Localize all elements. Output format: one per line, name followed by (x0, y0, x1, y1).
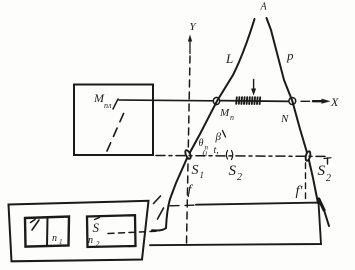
Y axis dashed line (187, 56, 191, 244)
label beta' (215, 131, 222, 143)
svg-text:1: 1 (59, 238, 63, 246)
node S2' blob on beam p (305, 151, 311, 161)
svg-text:2: 2 (237, 172, 242, 183)
beam L (left ray) (166, 19, 255, 228)
svg-text:M: M (219, 107, 230, 119)
label theta_p (199, 138, 209, 152)
hook at bottom of beam L (152, 228, 166, 231)
svg-text:S: S (93, 220, 100, 235)
small marks (1 under theta (203, 149, 208, 158)
node M_p (left circle on X axis) (213, 97, 219, 104)
box of detectors (bottom-left outer box) (9, 201, 149, 261)
svg-text:p: p (286, 48, 294, 63)
svg-text:п: п (230, 113, 234, 122)
label S2 (229, 163, 243, 183)
divider in P1 box (46, 217, 49, 246)
svg-text:Y: Y (190, 21, 198, 33)
wire: X axis between nodes (220, 100, 289, 103)
svg-text:β: β (215, 131, 222, 143)
label P2 (88, 235, 100, 248)
svg-text:(ι: (ι (203, 149, 208, 158)
slash in P1 box (32, 220, 39, 230)
svg-text:N: N (280, 113, 289, 125)
label M_pl (93, 91, 112, 110)
svg-text:пл: пл (104, 101, 112, 110)
dashed vertical f' (305, 163, 307, 203)
box M_pl (upper-left mirror block) (74, 85, 153, 156)
beam p (right ray) (267, 18, 319, 203)
svg-text:п: п (88, 235, 93, 246)
detector box P2 (87, 215, 136, 247)
dashed diagonal inside box M_pl (107, 108, 126, 151)
svg-text:п: п (52, 233, 57, 244)
bold tick at rectangle corner on beam p (319, 199, 324, 210)
svg-text:1: 1 (200, 170, 205, 180)
grating on X axis (236, 97, 260, 104)
wire: beam from box M_pl to node M_p (119, 99, 214, 102)
label S2 prime (318, 163, 332, 184)
svg-text:f: f (188, 183, 194, 198)
svg-text:θ: θ (199, 138, 204, 149)
dashed line from P2 box to beam L end (108, 231, 160, 234)
slash dash above beam L end (154, 196, 161, 204)
svg-text:A: A (260, 2, 268, 13)
node S1 blob on beam L (184, 149, 192, 159)
svg-text:t,: t, (214, 145, 219, 156)
X axis dash and arrow (301, 100, 310, 102)
arrow above grating (pointing down) (253, 80, 255, 90)
slash dash near beam L end (158, 208, 164, 219)
svg-text:S: S (318, 163, 326, 179)
svg-text:S: S (192, 163, 199, 178)
dashed focal line through S1 S2 (156, 155, 327, 158)
gap marks near S2 (226, 151, 227, 160)
Y axis arrow (189, 39, 191, 54)
svg-text:f′: f′ (296, 184, 304, 199)
svg-text:L: L (225, 51, 233, 66)
svg-text:S: S (229, 163, 237, 179)
label S1 (192, 163, 205, 180)
label M_p (219, 107, 234, 122)
detector box P1 (25, 217, 69, 247)
label P1 (52, 233, 63, 246)
rectangle (interference plane block) (170, 204, 196, 207)
svg-text:2: 2 (96, 240, 100, 248)
svg-text:2: 2 (326, 173, 331, 184)
node N (right circle on X axis) (289, 98, 296, 105)
svg-text:X: X (330, 95, 339, 109)
slash after M_pl (113, 99, 118, 109)
